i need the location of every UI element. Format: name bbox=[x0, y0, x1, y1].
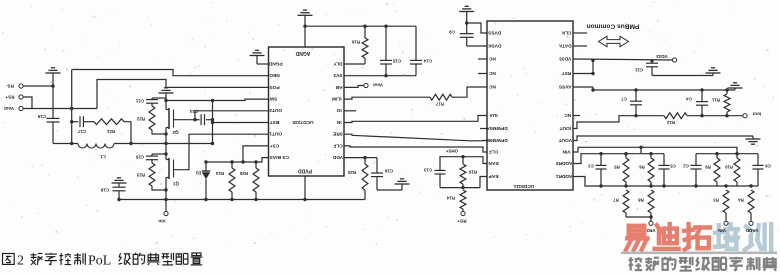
resistor R15 bbox=[462, 157, 464, 164]
svg-text:EAN: EAN bbox=[488, 160, 499, 166]
wire bypass vertical bbox=[212, 101, 214, 144]
svg-text:C2: C2 bbox=[683, 164, 689, 169]
diode D1 bbox=[205, 162, 207, 171]
resistor R24 bbox=[231, 162, 233, 168]
svg-text:R4: R4 bbox=[738, 198, 744, 203]
resistor R5 bbox=[625, 154, 627, 158]
wire group2 top rail bbox=[696, 153, 758, 155]
transistor Q2 (high side) bbox=[168, 108, 170, 129]
ground (analog line) bbox=[728, 87, 743, 89]
svg-text:CS+: CS+ bbox=[270, 142, 280, 148]
wire output mid rail bbox=[53, 143, 78, 145]
wire VD33 net bbox=[573, 59, 672, 60]
svg-text:RST: RST bbox=[562, 70, 572, 76]
wire DATA stub bbox=[573, 45, 587, 47]
svg-text:DATA: DATA bbox=[558, 42, 571, 48]
terminal VIM bbox=[724, 221, 728, 225]
ground (VOUT rail end) bbox=[752, 136, 754, 139]
svg-text:C6: C6 bbox=[765, 164, 771, 169]
wire group1 tie bbox=[640, 147, 642, 153]
svg-text:RS-: RS- bbox=[6, 83, 14, 88]
capacitor C3 bbox=[600, 154, 602, 166]
svg-text:UCD7230: UCD7230 bbox=[292, 119, 313, 125]
svg-text:2: 2 bbox=[17, 254, 24, 269]
capacitor C6 bbox=[757, 154, 759, 166]
svg-text:SRE: SRE bbox=[332, 131, 343, 137]
wire VDD to R20 node bbox=[344, 157, 365, 159]
watermark char Yi bbox=[629, 224, 645, 228]
svg-text:R8: R8 bbox=[638, 198, 644, 203]
svg-text:C25: C25 bbox=[135, 155, 144, 160]
svg-text:R25: R25 bbox=[239, 171, 248, 176]
svg-text:DVSS: DVSS bbox=[487, 29, 501, 35]
svg-text:CLF: CLF bbox=[489, 148, 498, 154]
svg-text:C21: C21 bbox=[135, 99, 144, 104]
svg-text:DLY: DLY bbox=[333, 60, 343, 66]
svg-text:C19: C19 bbox=[37, 114, 46, 119]
svg-text:R23: R23 bbox=[136, 173, 145, 178]
svg-text:R3: R3 bbox=[713, 198, 719, 203]
svg-text:C4: C4 bbox=[686, 97, 692, 102]
resistor R9 bbox=[716, 154, 718, 158]
capacitor C19 bbox=[52, 86, 54, 118]
svg-text:VIN: VIN bbox=[562, 148, 571, 154]
svg-text:C13: C13 bbox=[423, 168, 432, 173]
svg-text:PoL: PoL bbox=[88, 254, 111, 269]
svg-text:VDD: VDD bbox=[332, 154, 343, 160]
PMBus double arrow bbox=[599, 36, 629, 46]
svg-text:NC: NC bbox=[488, 70, 495, 76]
svg-text:NEG: NEG bbox=[269, 72, 280, 78]
inductor L1 bbox=[78, 144, 114, 149]
svg-text:R21: R21 bbox=[106, 129, 115, 134]
resistor Rv2 bbox=[748, 190, 754, 213]
capacitor C9 bbox=[466, 23, 468, 34]
watermark underline bbox=[621, 252, 777, 255]
svg-text:R16: R16 bbox=[351, 40, 360, 45]
wire IO stub bbox=[344, 110, 356, 112]
svg-text:IUA: IUA bbox=[489, 112, 498, 118]
svg-text:R17: R17 bbox=[435, 102, 444, 107]
wire snubber to rail bbox=[124, 122, 131, 144]
wire RS+ down to Vout line bbox=[24, 97, 33, 109]
resistor R22 (gate) bbox=[149, 106, 155, 130]
svg-text:VR2: VR2 bbox=[646, 228, 655, 233]
svg-text:ADDR0: ADDR0 bbox=[556, 160, 573, 166]
terminal Vout (left) bbox=[19, 106, 23, 110]
svg-text:UCD9111: UCD9111 bbox=[513, 183, 534, 189]
svg-text:IOUT: IOUT bbox=[560, 125, 572, 131]
wire RS- to ground node bbox=[24, 85, 54, 87]
svg-text:OUT2: OUT2 bbox=[269, 107, 282, 113]
svg-text:IO: IO bbox=[336, 107, 341, 113]
ground (C18) bbox=[112, 182, 127, 184]
svg-text:VD33: VD33 bbox=[656, 54, 668, 59]
ground (C11) bbox=[706, 72, 721, 74]
svg-text:R7: R7 bbox=[613, 198, 619, 203]
wire PGND bbox=[257, 63, 269, 65]
wire AGND top rail bbox=[305, 25, 416, 27]
svg-text:R5: R5 bbox=[614, 165, 620, 170]
resistor R16 bbox=[364, 26, 366, 38]
svg-text:C24: C24 bbox=[189, 109, 198, 114]
wire VOUT rail bbox=[573, 136, 753, 141]
wire NEG rail bbox=[72, 70, 269, 76]
capacitor C24 bbox=[195, 119, 200, 121]
capacitor C18 (input) bbox=[118, 191, 120, 199]
svg-text:CLF: CLF bbox=[333, 142, 342, 148]
wire NC stub (U2 right) bbox=[573, 115, 580, 117]
wire AVSS net bbox=[573, 86, 593, 88]
wire Vout line bbox=[24, 108, 98, 110]
svg-text:R11: R11 bbox=[712, 98, 720, 103]
terminal RS- bbox=[19, 84, 23, 88]
resistor R20 bbox=[364, 158, 366, 164]
terminal RS+ bbox=[19, 95, 23, 99]
terminal VD33 bbox=[672, 58, 676, 62]
node Vout sense terminal bbox=[344, 86, 364, 88]
wire RST tie bbox=[573, 73, 593, 75]
svg-text:R20: R20 bbox=[347, 170, 356, 175]
svg-text:C11: C11 bbox=[635, 68, 643, 73]
svg-text:Q2: Q2 bbox=[172, 130, 179, 135]
capacitor C11 bbox=[651, 61, 653, 64]
wire SV3 rail bbox=[344, 75, 416, 77]
wire mid rail (right of L1) bbox=[114, 143, 213, 145]
wire ADDR1 to bottom rail bbox=[573, 177, 758, 187]
wire DVSS jog bbox=[467, 23, 487, 33]
wire to Iout terminal bbox=[687, 115, 743, 117]
resistor R12 bbox=[664, 113, 687, 119]
wire NC stubs (U2 left) bbox=[478, 58, 487, 60]
svg-text:SW: SW bbox=[269, 95, 277, 101]
wire OUT2 to gate bbox=[174, 111, 269, 120]
svg-text:ADDR1: ADDR1 bbox=[556, 173, 573, 179]
svg-text:R15: R15 bbox=[468, 170, 477, 175]
svg-text:R22: R22 bbox=[136, 117, 145, 122]
op-amp U1 gate driver UCD7230 body bbox=[269, 47, 345, 176]
ground (PGND pin of U1) bbox=[250, 55, 265, 57]
svg-text:AB: AB bbox=[335, 84, 342, 90]
svg-text:CLK: CLK bbox=[561, 29, 571, 35]
wire divider bottom rail bbox=[440, 187, 480, 189]
watermark subtitle bbox=[630, 257, 632, 271]
svg-text:PGND: PGND bbox=[268, 60, 282, 66]
resistor R10 bbox=[736, 154, 738, 158]
svg-text:ILIM: ILIM bbox=[332, 95, 342, 101]
terminal RS+ (divider) bbox=[461, 211, 465, 215]
svg-text:NC: NC bbox=[488, 83, 495, 89]
terminal VR2 bbox=[649, 221, 653, 225]
svg-text:EAP: EAP bbox=[488, 173, 499, 179]
wire VIN rail bbox=[573, 147, 737, 153]
wire EAN net bbox=[440, 157, 487, 171]
capacitor C25 (gate) bbox=[152, 153, 166, 155]
svg-text:SV3: SV3 bbox=[333, 72, 342, 78]
svg-text:VADD: VADD bbox=[745, 228, 758, 233]
svg-text:C16: C16 bbox=[384, 169, 393, 174]
resistor R6 bbox=[650, 154, 652, 158]
svg-text:OHS+: OHS+ bbox=[446, 148, 459, 153]
svg-text:Q1: Q1 bbox=[172, 181, 179, 186]
svg-text:C18: C18 bbox=[100, 188, 109, 193]
ground (top of U1, AGND rail) bbox=[298, 14, 313, 16]
wire EAP jog bbox=[480, 177, 487, 188]
capacitor C21 (gate) bbox=[152, 97, 166, 99]
wire IN to IUA bbox=[344, 116, 487, 123]
svg-text:L1: L1 bbox=[100, 154, 106, 159]
svg-text:C3: C3 bbox=[588, 164, 594, 169]
svg-text:DPWM0A: DPWM0A bbox=[486, 125, 508, 131]
svg-text:C5: C5 bbox=[670, 164, 676, 169]
capacitor C2 bbox=[695, 154, 697, 166]
capacitor C5 bbox=[663, 154, 665, 166]
svg-text:VOUT: VOUT bbox=[559, 137, 572, 143]
wire DPWM0A stub bbox=[480, 128, 487, 130]
resistor R23 (gate) bbox=[149, 163, 155, 186]
capacitor C14 bbox=[415, 26, 417, 60]
capacitor C15 bbox=[385, 26, 387, 60]
watermark char Xun bbox=[746, 226, 752, 231]
ground (C9) bbox=[459, 11, 474, 13]
svg-text:DVSK: DVSK bbox=[488, 42, 502, 48]
capacitor C13 bbox=[435, 169, 446, 171]
wire DLY to R16 bbox=[344, 63, 365, 65]
controller U2 UCD9111 body bbox=[487, 21, 573, 190]
svg-text:NC: NC bbox=[488, 55, 495, 61]
svg-text:OUT1: OUT1 bbox=[269, 131, 282, 137]
svg-text:Vout: Vout bbox=[4, 106, 14, 111]
capacitor C7 bbox=[635, 105, 637, 116]
terminal Iout bbox=[743, 114, 747, 118]
svg-text:DPWM0B: DPWM0B bbox=[486, 137, 508, 143]
resistor R7 bbox=[623, 190, 629, 213]
capacitor C4 bbox=[701, 105, 703, 116]
watermark char Pei bbox=[717, 225, 721, 247]
wire bottom input rail bbox=[118, 199, 365, 201]
caption figure 2 title bbox=[3, 254, 15, 265]
wire CS BIAS rail bbox=[206, 158, 269, 162]
svg-text:C9: C9 bbox=[449, 30, 455, 35]
svg-text:AGND: AGND bbox=[295, 50, 310, 56]
wire BST bbox=[213, 122, 269, 124]
resistor R25 bbox=[255, 162, 257, 168]
wire left vertical (output node) bbox=[71, 70, 73, 144]
wire ADDR0 rail (group1 top) bbox=[573, 154, 664, 164]
resistor Rv1 bbox=[723, 190, 729, 213]
svg-text:D1: D1 bbox=[195, 171, 201, 176]
svg-text:CS BIAS: CS BIAS bbox=[269, 154, 289, 160]
svg-text:R6: R6 bbox=[639, 165, 645, 170]
wire riser to POS rail bbox=[97, 80, 269, 109]
svg-text:PMBus Common: PMBus Common bbox=[587, 22, 640, 29]
capacitor C16 bbox=[365, 157, 377, 159]
svg-text:POS: POS bbox=[269, 84, 280, 90]
wire DVSK bbox=[467, 45, 487, 47]
wire IOUT rail bbox=[573, 116, 664, 129]
svg-text:C17: C17 bbox=[77, 129, 86, 134]
svg-text:VD33: VD33 bbox=[559, 55, 571, 61]
wire OUT1 to Q1 gate bbox=[174, 134, 269, 170]
wire SW node rail bbox=[166, 99, 269, 100]
svg-text:IN: IN bbox=[336, 119, 341, 125]
svg-text:R24: R24 bbox=[215, 171, 224, 176]
svg-text:R9: R9 bbox=[705, 165, 711, 170]
resistor R8 bbox=[648, 190, 654, 213]
wire R7/R8 join bbox=[625, 213, 627, 217]
ground (C19 branch) bbox=[46, 72, 61, 74]
terminal Vin bbox=[165, 200, 167, 212]
svg-text:R12: R12 bbox=[666, 120, 675, 125]
svg-text:C14: C14 bbox=[423, 59, 432, 64]
svg-text:AVSS: AVSS bbox=[558, 83, 572, 89]
svg-text:BST: BST bbox=[270, 119, 280, 125]
capacitor C17 (snubber) bbox=[72, 121, 79, 123]
transistor Q1 (low side) bbox=[168, 158, 170, 179]
svg-text:Vin: Vin bbox=[158, 218, 165, 223]
wire C11 to ground bbox=[652, 75, 713, 77]
ground (Q2 drain node) bbox=[159, 92, 174, 94]
svg-text:Iout: Iout bbox=[752, 111, 761, 116]
resistor R17 bbox=[344, 97, 430, 99]
svg-text:R10: R10 bbox=[724, 165, 732, 170]
ground (C16) bbox=[395, 183, 410, 185]
resistor R21 (snubber) bbox=[83, 121, 94, 123]
terminal VADD bbox=[749, 221, 753, 225]
wire CS+ jog bbox=[243, 146, 269, 162]
svg-text:Vout: Vout bbox=[373, 82, 383, 87]
svg-text:RS+: RS+ bbox=[5, 94, 14, 99]
wire PVDD stub bbox=[304, 176, 306, 200]
svg-text:PVDD: PVDD bbox=[298, 168, 312, 174]
wire SRE to DPWM0B bbox=[344, 134, 487, 141]
wire analog ground line bbox=[593, 89, 735, 91]
svg-text:VIN: VIN bbox=[717, 228, 725, 233]
svg-text:C15: C15 bbox=[392, 59, 401, 64]
watermark char Di bbox=[657, 225, 661, 231]
wire CLK stub bbox=[573, 32, 587, 34]
resistor R14 bbox=[460, 190, 466, 209]
resistor R11 bbox=[726, 112, 728, 116]
watermark char Tuo bbox=[686, 224, 690, 247]
svg-text:C7: C7 bbox=[621, 97, 627, 102]
svg-text:RS+: RS+ bbox=[457, 218, 466, 223]
svg-text:R14: R14 bbox=[446, 196, 455, 201]
wire CLF to CLF bbox=[344, 146, 487, 152]
